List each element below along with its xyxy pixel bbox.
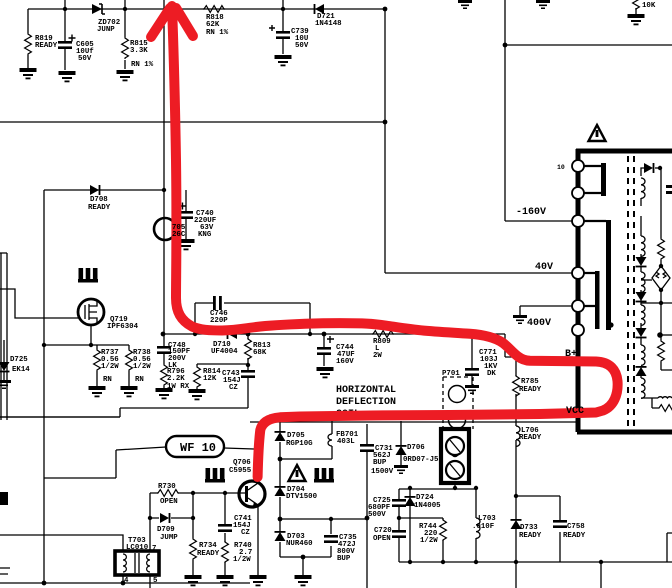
- svg-text:READY: READY: [519, 434, 542, 442]
- svg-text:50V: 50V: [78, 55, 92, 63]
- svg-text:C5955: C5955: [229, 467, 252, 475]
- svg-text:2.2K: 2.2K: [167, 375, 185, 383]
- svg-text:READY: READY: [197, 550, 220, 558]
- svg-text:2W: 2W: [373, 352, 382, 360]
- svg-text:WF 10: WF 10: [180, 441, 216, 455]
- svg-text:1W RX: 1W RX: [167, 383, 190, 391]
- svg-text:220P: 220P: [210, 317, 228, 325]
- svg-text:D706: D706: [407, 444, 425, 452]
- svg-text:10: 10: [557, 164, 565, 171]
- svg-text:Q706: Q706: [233, 459, 251, 467]
- svg-text:50V: 50V: [295, 42, 309, 50]
- svg-text:IPF6304: IPF6304: [107, 323, 139, 331]
- svg-text:7: 7: [152, 545, 156, 553]
- svg-text:D724: D724: [416, 494, 434, 502]
- svg-text:NUR460: NUR460: [286, 540, 313, 548]
- svg-text:KNG: KNG: [198, 231, 212, 239]
- svg-text:LC010: LC010: [126, 544, 149, 552]
- svg-text:4: 4: [124, 577, 129, 585]
- svg-text:OPEN: OPEN: [160, 498, 178, 506]
- svg-text:READY: READY: [88, 204, 111, 212]
- svg-text:400V: 400V: [527, 318, 551, 329]
- svg-text:1/2W: 1/2W: [233, 556, 251, 564]
- svg-text:403L: 403L: [337, 438, 355, 446]
- svg-text:160V: 160V: [336, 358, 354, 366]
- svg-text:1N4005: 1N4005: [414, 502, 441, 510]
- svg-text:R734: R734: [199, 542, 217, 550]
- svg-text:R785: R785: [521, 378, 539, 386]
- svg-text:D708: D708: [90, 196, 108, 204]
- svg-text:D705: D705: [287, 432, 305, 440]
- svg-text:RN: RN: [103, 376, 112, 384]
- svg-text:BUP: BUP: [337, 555, 351, 563]
- svg-text:P701: P701: [442, 370, 460, 378]
- svg-text:0RD07-J5: 0RD07-J5: [403, 456, 439, 464]
- svg-text:OPEN: OPEN: [373, 535, 391, 543]
- svg-text:READY: READY: [563, 532, 586, 540]
- svg-text:DK: DK: [487, 370, 496, 378]
- svg-text:L703: L703: [478, 515, 496, 523]
- svg-text:C720: C720: [374, 527, 392, 535]
- svg-text:READY: READY: [35, 42, 58, 50]
- svg-text:RN 1%: RN 1%: [131, 61, 154, 69]
- svg-text:40V: 40V: [535, 262, 553, 273]
- svg-text:RN 1%: RN 1%: [206, 29, 229, 37]
- svg-text:62K: 62K: [206, 21, 220, 29]
- svg-text:1/2W: 1/2W: [101, 363, 119, 371]
- svg-text:12K: 12K: [203, 375, 217, 383]
- svg-text:5: 5: [153, 577, 158, 585]
- svg-text:26C: 26C: [172, 231, 186, 239]
- svg-text:68K: 68K: [253, 349, 267, 357]
- svg-text:CZ: CZ: [229, 384, 238, 392]
- svg-text:HORIZONTAL: HORIZONTAL: [336, 385, 396, 396]
- svg-text:JUMP: JUMP: [160, 534, 178, 542]
- svg-text:JUNP: JUNP: [97, 26, 115, 34]
- svg-text:READY: READY: [519, 386, 542, 394]
- svg-text:10K: 10K: [642, 2, 656, 10]
- svg-text:1N4148: 1N4148: [315, 20, 342, 28]
- svg-text:VCC: VCC: [566, 406, 584, 417]
- svg-text:RN: RN: [135, 376, 144, 384]
- svg-text:EK14: EK14: [12, 366, 30, 374]
- svg-text:B+: B+: [565, 349, 577, 360]
- svg-text:R730: R730: [158, 483, 176, 491]
- svg-text:1/2W: 1/2W: [420, 537, 438, 545]
- svg-text:.010F: .010F: [472, 523, 494, 531]
- svg-text:1500V: 1500V: [371, 468, 394, 476]
- svg-text:C758: C758: [567, 523, 585, 531]
- svg-text:DTV1500: DTV1500: [286, 493, 318, 501]
- svg-text:BUP: BUP: [373, 459, 387, 467]
- svg-text:D725: D725: [10, 356, 28, 364]
- svg-text:DEFLECTION: DEFLECTION: [336, 397, 396, 408]
- svg-text:CZ: CZ: [241, 529, 250, 537]
- svg-text:3.3K: 3.3K: [130, 47, 148, 55]
- svg-text:UF4004: UF4004: [211, 348, 238, 356]
- svg-text:D733: D733: [520, 524, 538, 532]
- svg-text:-160V: -160V: [516, 207, 546, 218]
- svg-text:RGP10G: RGP10G: [286, 440, 313, 448]
- svg-text:READY: READY: [519, 532, 542, 540]
- svg-text:500V: 500V: [368, 511, 386, 519]
- svg-text:1/2W: 1/2W: [133, 363, 151, 371]
- svg-text:D709: D709: [157, 526, 175, 534]
